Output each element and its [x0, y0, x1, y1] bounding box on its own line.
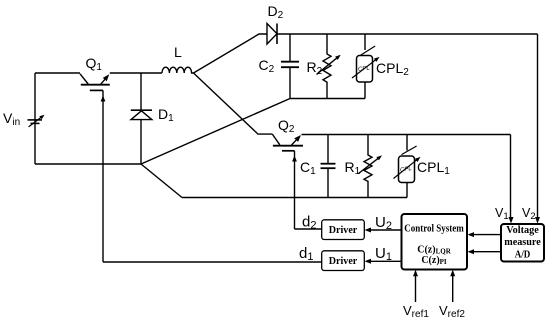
svg-text:U2: U2: [375, 214, 392, 232]
driver box DRV1: [322, 251, 365, 271]
svg-text:D1: D1: [158, 106, 174, 124]
wire d1 (Q1 gate to Driver): [103, 261, 322, 263]
diode D2: [267, 24, 277, 45]
wire output1 top rail: [302, 134, 511, 136]
wire diagonal ground node to C2 bottom: [141, 99, 290, 165]
svg-text:A/D: A/D: [515, 250, 531, 261]
inductor L: [162, 67, 193, 73]
wire Vref1 arrow: [415, 275, 417, 302]
svg-text:Control System: Control System: [404, 224, 464, 235]
driver box DRV2: [322, 220, 365, 240]
svg-text:measure: measure: [504, 237, 541, 248]
svg-text:Vref1: Vref1: [403, 303, 429, 320]
resistor R1: [359, 135, 383, 198]
wire diagonal ground node to output1 bottom rail: [141, 164, 182, 198]
svg-text:V2: V2: [522, 206, 536, 222]
svg-text:R1: R1: [345, 159, 361, 177]
svg-text:Vin: Vin: [3, 110, 20, 128]
arrow U1 head: [365, 259, 372, 264]
svg-text:L: L: [174, 44, 182, 60]
svg-text:Q1: Q1: [86, 55, 103, 73]
arrow Vref1 head: [413, 270, 418, 277]
source Vin: [28, 115, 45, 127]
svg-text:Q2: Q2: [278, 117, 295, 135]
capacitor C2: [281, 34, 299, 99]
svg-text:CPL1: CPL1: [417, 159, 450, 177]
load CPL2: [352, 34, 380, 99]
arrow Vref2 head: [450, 270, 455, 277]
svg-text:d2: d2: [302, 214, 316, 232]
svg-text:C1: C1: [300, 159, 316, 177]
wire diagonal L-junction to Q2: [194, 73, 273, 134]
svg-text:Driver: Driver: [329, 225, 358, 236]
arrow V1 into voltage box: [509, 217, 514, 224]
svg-text:C2: C2: [259, 57, 275, 75]
svg-text:Voltage: Voltage: [506, 225, 539, 236]
svg-text:V1: V1: [495, 206, 509, 222]
wire left vertical (Vin branch): [34, 73, 36, 164]
wire ground rail: [35, 163, 141, 165]
wire V2 vertical drop: [537, 34, 539, 218]
svg-text:CPL2: CPL2: [376, 60, 409, 78]
wire Vref2 arrow: [452, 275, 454, 302]
wire top rail left (Vin to Q1): [35, 72, 80, 74]
resistor R2: [317, 34, 341, 99]
load CPL1: [394, 135, 421, 198]
svg-text:R2: R2: [307, 59, 323, 77]
svg-text:Driver: Driver: [329, 256, 358, 267]
svg-text:D2: D2: [268, 3, 284, 21]
transistor Q2: [272, 134, 303, 229]
voltage measure box U4: [501, 224, 544, 262]
svg-text:Vref2: Vref2: [439, 303, 465, 320]
wire voltage box to control box (upper): [473, 234, 501, 236]
wire voltage box to control box (lower): [473, 251, 501, 253]
arrow U2 head: [365, 228, 372, 233]
wire V1 vertical drop: [510, 135, 512, 219]
wire d2 (Q2 gate to Driver): [295, 228, 322, 230]
label Voltage measure A/D: [504, 225, 541, 261]
wire U2 (Control System to upper Driver): [370, 229, 402, 231]
control system box U3: [402, 214, 468, 270]
wire output2 top rail: [277, 33, 538, 35]
wire output1 bottom rail: [182, 197, 407, 199]
wire output2 bottom rail: [290, 98, 365, 100]
wire top rail mid (Q1 to L): [110, 72, 162, 74]
wire U1 (Control System to lower Driver): [370, 260, 402, 262]
arrow V2 into voltage box: [535, 217, 540, 224]
svg-text:U1: U1: [375, 245, 392, 263]
capacitor C1: [321, 135, 336, 198]
diode D1: [131, 73, 152, 164]
arrow head lower: [468, 249, 475, 254]
arrow head upper: [468, 232, 475, 237]
transistor Q1: [80, 74, 110, 262]
wire diagonal L-junction to D2: [194, 34, 268, 73]
svg-text:d1: d1: [299, 245, 313, 263]
